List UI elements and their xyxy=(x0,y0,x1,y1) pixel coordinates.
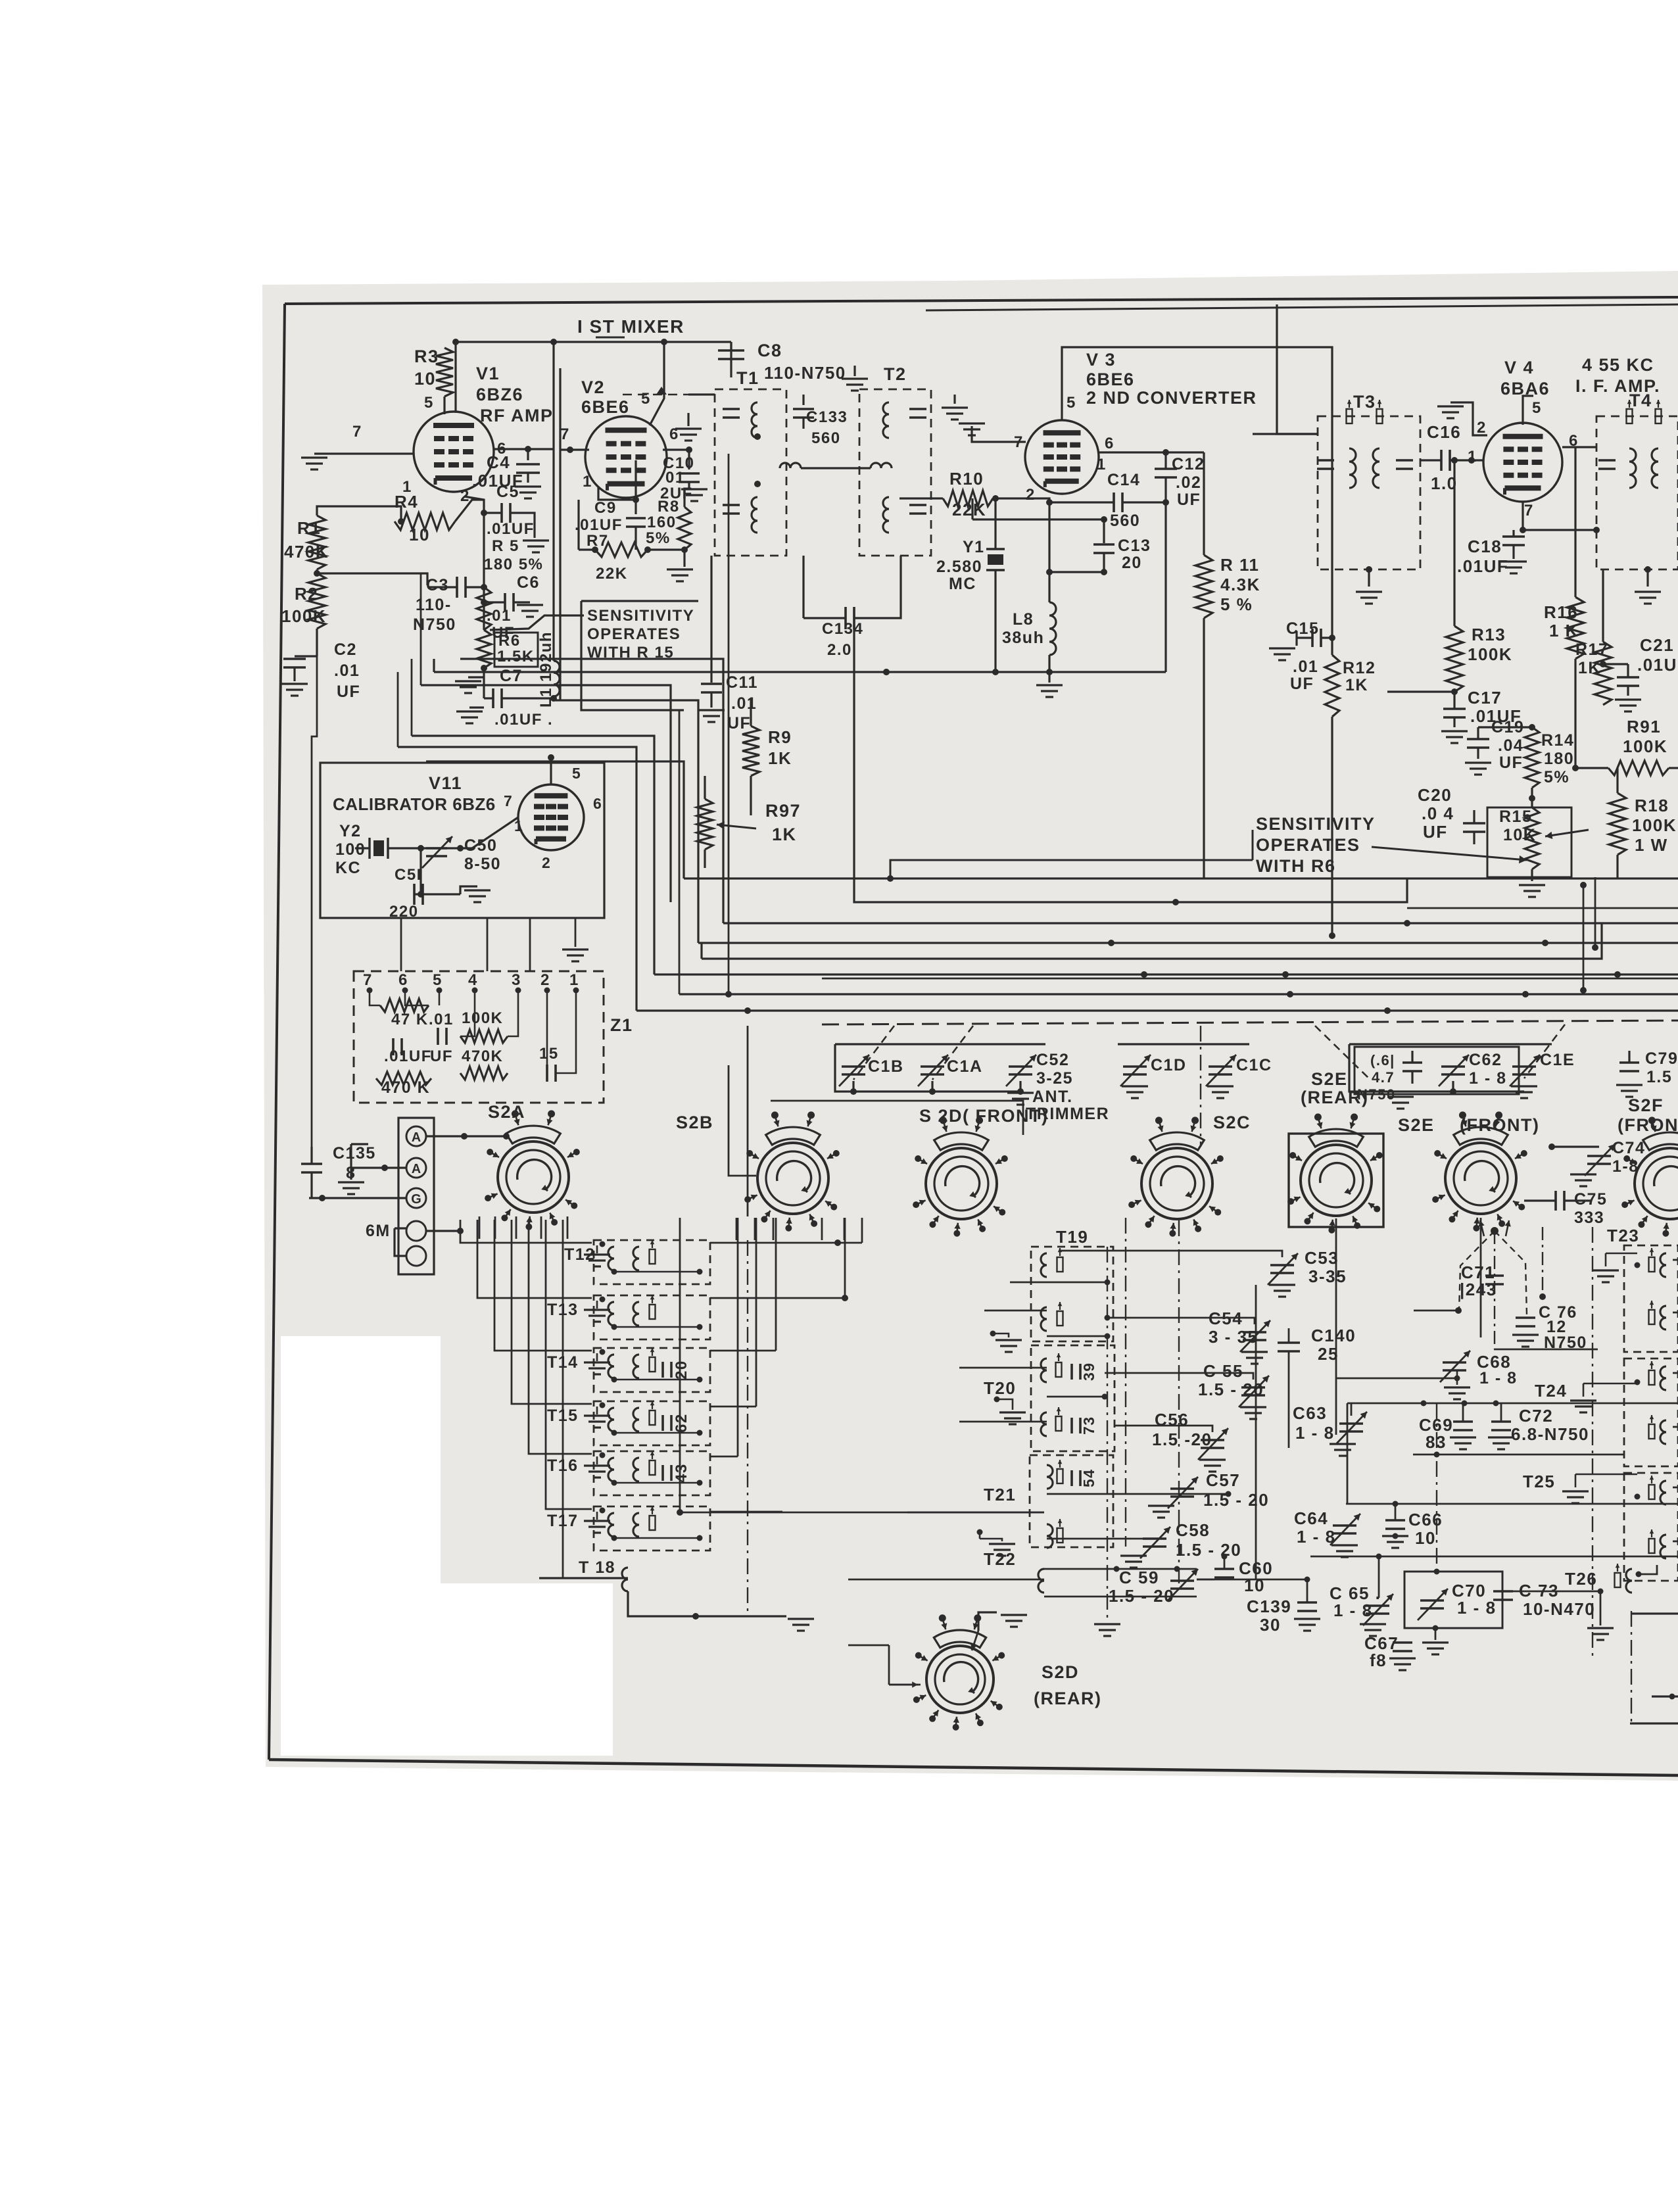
Z1 resistor 47K xyxy=(380,999,429,1012)
bus junction dots xyxy=(883,669,890,675)
svg-text:R10: R10 xyxy=(949,469,984,489)
svg-text:C4: C4 xyxy=(487,452,510,472)
capacitor C76 12 N750 xyxy=(1516,1316,1535,1319)
long vertical pair V1-V2 xyxy=(552,342,554,661)
svg-text:A: A xyxy=(412,1130,421,1145)
svg-text:T26: T26 xyxy=(1565,1569,1597,1589)
staircase left risers xyxy=(411,659,413,736)
slant dashed links C71 xyxy=(1491,1227,1498,1235)
svg-text:.01UF: .01UF xyxy=(1637,655,1678,675)
svg-text:.01: .01 xyxy=(429,1011,454,1028)
V4 top ground wire xyxy=(1450,402,1487,435)
svg-text:5: 5 xyxy=(433,971,443,989)
ground left of terminals xyxy=(351,1166,368,1168)
capacitor C58 1.5-20 xyxy=(1143,1537,1166,1540)
border frame xyxy=(285,297,1678,304)
ground right of T18 xyxy=(788,1618,814,1620)
capacitor C65 1-8 xyxy=(1366,1604,1389,1607)
capacitor C60 10 xyxy=(1214,1568,1234,1570)
svg-text:2: 2 xyxy=(542,854,551,871)
riser from C10 area xyxy=(728,454,730,994)
svg-text:1K: 1K xyxy=(772,825,797,844)
svg-text:T4: T4 xyxy=(1629,391,1652,410)
svg-text:2: 2 xyxy=(1477,419,1487,437)
svg-text:R13: R13 xyxy=(1472,625,1506,644)
svg-text:10: 10 xyxy=(1244,1575,1265,1595)
svg-text:3 - 35: 3 - 35 xyxy=(1209,1327,1258,1347)
svg-text:6.8-N750: 6.8-N750 xyxy=(1511,1424,1589,1444)
svg-text:5 %: 5 % xyxy=(1220,594,1253,614)
wires below calibrator xyxy=(400,918,402,971)
T2 coils xyxy=(883,402,889,438)
T3 coils xyxy=(1349,448,1356,488)
white cutout lower-left B xyxy=(281,1583,613,1756)
box around .61 caps xyxy=(1354,1047,1519,1094)
svg-text:100K: 100K xyxy=(462,1009,503,1027)
bus y1458 xyxy=(702,923,1602,959)
T26 feed row xyxy=(1310,1556,1678,1558)
svg-text:T24: T24 xyxy=(1535,1381,1567,1401)
svg-text:T3: T3 xyxy=(1353,392,1376,412)
paper background xyxy=(262,271,1678,1781)
svg-text:S2B: S2B xyxy=(676,1113,713,1132)
T21 wires xyxy=(1047,1493,1228,1495)
svg-text:T 18: T 18 xyxy=(579,1558,615,1577)
capacitor C54 3-35 xyxy=(1243,1331,1266,1334)
capacitor C72 6.8-N750 xyxy=(1491,1420,1511,1423)
capacitor C68 1-8 xyxy=(1443,1361,1466,1364)
svg-text:T2: T2 xyxy=(884,364,907,384)
line under C76 xyxy=(1494,1349,1598,1351)
svg-text:C3: C3 xyxy=(426,576,449,594)
svg-text:WITH R6: WITH R6 xyxy=(1256,856,1336,876)
svg-text:C2: C2 xyxy=(334,640,357,659)
svg-text:22K: 22K xyxy=(596,565,628,583)
ground above T2 xyxy=(853,366,855,376)
terminal wires xyxy=(426,1135,506,1137)
svg-text:SENSITIVITY: SENSITIVITY xyxy=(1256,814,1376,834)
svg-text:CALIBRATOR 6BZ6: CALIBRATOR 6BZ6 xyxy=(333,794,496,814)
T25 feed row xyxy=(1346,1503,1678,1505)
svg-text:C135: C135 xyxy=(333,1144,376,1163)
bus y1404 xyxy=(723,922,1678,924)
cathode chain node wire xyxy=(464,496,484,630)
S2B feeds left xyxy=(729,1065,756,1176)
svg-text:C56: C56 xyxy=(1155,1410,1189,1430)
svg-text:10-N470: 10-N470 xyxy=(1523,1599,1595,1619)
svg-text:R12: R12 xyxy=(1343,659,1376,677)
svg-text:.01: .01 xyxy=(487,607,512,625)
svg-text:73: 73 xyxy=(1080,1416,1097,1435)
svg-text:C5I: C5I xyxy=(395,866,422,884)
T21 ground xyxy=(989,1543,1015,1545)
staircase wire E xyxy=(412,736,654,974)
cap C79 1.5 xyxy=(1619,1061,1639,1064)
svg-text:V1: V1 xyxy=(476,364,500,383)
tube V4 xyxy=(1483,423,1562,502)
svg-text:2 ND CONVERTER: 2 ND CONVERTER xyxy=(1086,388,1257,408)
vertical riser x1910 xyxy=(1255,1285,1257,1579)
right bus verticals xyxy=(1583,885,1585,990)
svg-text:C7: C7 xyxy=(500,667,523,685)
svg-text:R14: R14 xyxy=(1541,731,1574,750)
T4 ground xyxy=(1646,569,1648,587)
svg-text:V 4: V 4 xyxy=(1504,358,1534,377)
svg-text:C57: C57 xyxy=(1206,1470,1240,1490)
capacitor C59 1.5-20 xyxy=(1170,1579,1194,1582)
svg-text:C12: C12 xyxy=(1172,455,1205,473)
bus y1434 xyxy=(698,942,1678,944)
svg-text:C79: C79 xyxy=(1645,1049,1678,1068)
svg-text:ANT.: ANT. xyxy=(1032,1088,1073,1106)
svg-text:.01UF: .01UF xyxy=(575,516,623,534)
svg-text:39: 39 xyxy=(1080,1362,1097,1381)
bus y1336 xyxy=(684,877,1678,879)
svg-text:C134: C134 xyxy=(822,620,863,638)
svg-text:RF AMP: RF AMP xyxy=(480,406,554,425)
svg-text:T25: T25 xyxy=(1523,1472,1555,1491)
capacitor C66 10 xyxy=(1385,1519,1405,1522)
variable capacitor C1A xyxy=(921,1065,944,1068)
T19 winding wires xyxy=(1059,1250,1197,1252)
dashed slant links xyxy=(853,1026,894,1080)
svg-text:I ST MIXER: I ST MIXER xyxy=(577,316,684,337)
svg-text:N750: N750 xyxy=(413,615,456,634)
svg-text:6BZ6: 6BZ6 xyxy=(476,385,523,404)
staircase wire G xyxy=(426,761,684,878)
T3 input wire xyxy=(1253,433,1318,435)
svg-text:R97: R97 xyxy=(765,801,801,821)
bus doubling segments xyxy=(1407,907,1678,909)
svg-text:5: 5 xyxy=(424,394,434,412)
cap C1D xyxy=(1123,1065,1147,1068)
svg-text:R9: R9 xyxy=(768,727,792,747)
ground under T-center xyxy=(1094,1623,1120,1625)
svg-text:UF: UF xyxy=(1177,491,1201,509)
svg-text:C1D: C1D xyxy=(1151,1056,1187,1074)
capacitor C53 3-35 xyxy=(1270,1264,1294,1266)
svg-text:1 - 8: 1 - 8 xyxy=(1469,1069,1507,1088)
switch S2A contact drops xyxy=(479,1216,481,1239)
ground under L8 xyxy=(1036,684,1063,686)
Z1 dashed box xyxy=(354,971,604,1103)
cap C74 1-8 xyxy=(1587,1155,1611,1157)
riser x1033 xyxy=(679,710,681,994)
svg-text:1.5 - 20: 1.5 - 20 xyxy=(1198,1380,1264,1399)
capacitor C55 1.5-20 xyxy=(1241,1386,1265,1389)
svg-text:2: 2 xyxy=(540,971,550,989)
svg-text:2.0: 2.0 xyxy=(827,641,852,659)
svg-text:333: 333 xyxy=(1574,1209,1604,1227)
svg-text:.01UF: .01UF xyxy=(1457,556,1508,576)
svg-text:|243: |243 xyxy=(1460,1280,1497,1299)
T19 ground xyxy=(995,1339,1022,1341)
svg-text:1.5 - 20: 1.5 - 20 xyxy=(1203,1490,1269,1510)
svg-text:C66: C66 xyxy=(1408,1510,1443,1529)
svg-text:3: 3 xyxy=(512,971,521,989)
svg-text:1 - 8: 1 - 8 xyxy=(1479,1369,1518,1387)
svg-text:C 59: C 59 xyxy=(1119,1568,1159,1587)
svg-text:R 5: R 5 xyxy=(492,537,519,555)
variable capacitor C1B xyxy=(842,1065,865,1068)
staircase wire D xyxy=(596,700,698,943)
T4 coils xyxy=(1629,448,1636,488)
svg-text:C9: C9 xyxy=(594,499,617,517)
svg-text:S2F: S2F xyxy=(1628,1095,1664,1115)
svg-text:C139: C139 xyxy=(1247,1597,1291,1616)
svg-text:C11: C11 xyxy=(726,673,758,692)
S2B hood wire xyxy=(771,1101,1023,1135)
svg-text:C1B: C1B xyxy=(868,1057,904,1076)
svg-text:C13: C13 xyxy=(1118,537,1151,555)
V2 pin5 wire xyxy=(650,342,664,425)
transformer T14 xyxy=(594,1348,710,1392)
svg-text:5: 5 xyxy=(1067,394,1076,412)
svg-text:1: 1 xyxy=(583,473,592,491)
svg-text:Z1: Z1 xyxy=(610,1015,633,1035)
bus y1512 xyxy=(679,993,1678,995)
svg-text:UF: UF xyxy=(1290,675,1314,693)
svg-text:5%: 5% xyxy=(646,529,671,547)
svg-text:C52: C52 xyxy=(1036,1051,1069,1069)
svg-text:1.5 l: 1.5 l xyxy=(1646,1068,1678,1086)
svg-text:7: 7 xyxy=(560,425,570,443)
svg-text:5%: 5% xyxy=(1544,768,1570,786)
switch S2D REAR xyxy=(926,1646,994,1713)
svg-text:R8: R8 xyxy=(658,498,680,516)
net box T24 row xyxy=(1347,1403,1678,1405)
svg-text:20: 20 xyxy=(673,1360,690,1380)
svg-text:V2: V2 xyxy=(581,377,605,397)
svg-text:1 - 8: 1 - 8 xyxy=(1297,1527,1336,1547)
svg-text:1.5 -20: 1.5 -20 xyxy=(1152,1430,1212,1449)
svg-text:S2D: S2D xyxy=(1042,1662,1079,1682)
svg-text:6BE6: 6BE6 xyxy=(581,397,630,417)
svg-text:T22: T22 xyxy=(984,1549,1016,1569)
svg-text:15: 15 xyxy=(539,1045,559,1063)
svg-text:6BE6: 6BE6 xyxy=(1086,370,1135,389)
svg-text:C75: C75 xyxy=(1574,1190,1607,1209)
svg-text:30: 30 xyxy=(1260,1615,1281,1635)
T3 ground stem xyxy=(1368,569,1370,587)
svg-text:2.580: 2.580 xyxy=(936,558,982,576)
svg-text:R4: R4 xyxy=(395,492,418,512)
svg-text:4.3K: 4.3K xyxy=(1220,575,1260,594)
vertical riser x1960 xyxy=(1288,1366,1290,1448)
pointer line to R15 xyxy=(1372,847,1527,860)
capacitor C73 10-N470 xyxy=(1493,1590,1513,1593)
ground left of V1 xyxy=(314,452,414,454)
svg-text:C8: C8 xyxy=(757,341,782,360)
box around C70 xyxy=(1404,1572,1502,1628)
svg-text:C21: C21 xyxy=(1640,635,1674,655)
svg-text:R6: R6 xyxy=(498,632,521,650)
svg-text:L8: L8 xyxy=(1013,610,1034,629)
svg-text:1 W: 1 W xyxy=(1635,835,1668,855)
V3 plate wire to x2026 xyxy=(1062,347,1332,638)
svg-text:UF: UF xyxy=(1423,822,1448,842)
svg-text:560: 560 xyxy=(811,429,841,447)
svg-text:.01: .01 xyxy=(731,694,757,713)
tube V1 xyxy=(414,412,494,492)
svg-text:C16: C16 xyxy=(1427,422,1461,442)
svg-text:47 K: 47 K xyxy=(391,1011,429,1028)
bus y1372 xyxy=(854,626,1407,902)
svg-text:4 55 KC: 4 55 KC xyxy=(1582,355,1654,375)
V3 pin7 ground wire xyxy=(972,426,1026,442)
svg-text:6M: 6M xyxy=(366,1222,391,1240)
ground under T2 xyxy=(953,395,955,404)
left bank riser wires xyxy=(460,1220,592,1243)
transformer T12 xyxy=(594,1240,710,1284)
svg-text:6: 6 xyxy=(593,795,602,812)
calibrator box xyxy=(320,763,604,918)
svg-text:1K: 1K xyxy=(768,748,792,768)
S2D rear feed xyxy=(978,1612,997,1631)
tube V11 xyxy=(518,784,584,850)
svg-text:7: 7 xyxy=(363,971,373,989)
svg-text:.01UF: .01UF xyxy=(487,520,535,538)
wire R2 tap to C3 xyxy=(317,573,427,585)
svg-text:.0 4: .0 4 xyxy=(1422,804,1454,823)
white cutout lower-left A xyxy=(281,1336,441,1586)
svg-text:A: A xyxy=(412,1162,421,1176)
wire box around sensitivity xyxy=(581,600,698,602)
svg-text:1: 1 xyxy=(1468,448,1477,466)
svg-text:UF: UF xyxy=(430,1047,453,1065)
junction dots right xyxy=(1222,1554,1228,1560)
svg-text:MC: MC xyxy=(949,575,976,593)
svg-text:.02: .02 xyxy=(1176,473,1201,492)
svg-text:S2E: S2E xyxy=(1398,1115,1435,1135)
svg-text:180 5%: 180 5% xyxy=(484,556,543,573)
Z1 interior wires xyxy=(370,990,380,1005)
svg-text:2: 2 xyxy=(1026,486,1036,504)
dash-dot riser to C70 xyxy=(1436,1403,1437,1572)
svg-text:560: 560 xyxy=(1110,512,1140,530)
right edge coil stubs xyxy=(1673,1259,1678,1261)
cap C75 333 xyxy=(1554,1191,1557,1211)
svg-text:.04: .04 xyxy=(1498,736,1523,755)
S2E drops xyxy=(1335,1218,1337,1435)
V2 pin7 wire xyxy=(560,448,589,450)
capacitor C56 1.5-20 xyxy=(1201,1439,1224,1441)
svg-text:T19: T19 xyxy=(1056,1227,1088,1247)
svg-text:Y1: Y1 xyxy=(963,538,985,556)
svg-text:4: 4 xyxy=(468,971,478,989)
svg-text:UF: UF xyxy=(337,683,360,701)
left column wire R2 to C135 xyxy=(312,656,317,1147)
T1 coils xyxy=(752,402,757,438)
svg-text:KC: KC xyxy=(335,859,361,877)
transformer T13 xyxy=(594,1295,710,1339)
tube V2 xyxy=(585,416,667,498)
svg-text:7: 7 xyxy=(504,792,513,809)
svg-text:C140: C140 xyxy=(1311,1326,1356,1345)
svg-text:1 - 8: 1 - 8 xyxy=(1295,1423,1335,1443)
svg-text:38uh: 38uh xyxy=(1002,629,1044,647)
svg-text:7: 7 xyxy=(1524,502,1534,519)
svg-text:3-25: 3-25 xyxy=(1036,1069,1073,1088)
svg-text:C62: C62 xyxy=(1469,1051,1502,1069)
svg-text:C53: C53 xyxy=(1305,1248,1339,1268)
svg-text:C58: C58 xyxy=(1176,1520,1210,1540)
svg-text:UF: UF xyxy=(727,714,751,733)
staircase wire F xyxy=(398,747,636,1011)
V4 pin6 wire to T4 xyxy=(1562,446,1596,448)
T3 feed from top rail xyxy=(1277,304,1318,434)
svg-text:T1: T1 xyxy=(736,368,759,388)
variable capacitor C62 1-8 xyxy=(1441,1065,1465,1068)
cap C1E xyxy=(1512,1065,1536,1068)
svg-text:1: 1 xyxy=(1097,456,1107,473)
ground in calibrator xyxy=(464,889,491,891)
svg-text:20: 20 xyxy=(1122,554,1142,572)
feed horizontals to T banks xyxy=(710,1242,862,1244)
capacitor C67 68 xyxy=(1393,1641,1412,1644)
svg-text:C50: C50 xyxy=(464,836,497,855)
capacitor C140 25 xyxy=(1278,1341,1300,1344)
right bank bottom box xyxy=(1632,1612,1678,1614)
wire V1 plate top line xyxy=(456,342,731,412)
svg-text:C63: C63 xyxy=(1293,1403,1327,1423)
svg-text:.01: .01 xyxy=(1293,658,1318,676)
T1-T2 coupling link xyxy=(780,463,801,468)
svg-text:470K: 470K xyxy=(462,1047,503,1065)
svg-text:5: 5 xyxy=(1532,399,1542,417)
svg-text:100: 100 xyxy=(335,840,366,859)
svg-text:110-N750: 110-N750 xyxy=(764,363,846,383)
svg-text:8-50: 8-50 xyxy=(464,855,501,873)
capacitor C70 1-8 xyxy=(1420,1599,1444,1602)
svg-text:TRIMMER: TRIMMER xyxy=(1026,1105,1109,1123)
svg-text:C6: C6 xyxy=(517,573,540,592)
svg-text:1.5K: 1.5K xyxy=(497,648,535,665)
svg-text:T20: T20 xyxy=(984,1378,1016,1398)
wires T1/T2 tops xyxy=(688,393,715,395)
vertical dash-dot columns xyxy=(747,1240,748,1616)
svg-text:C1C: C1C xyxy=(1236,1056,1272,1074)
svg-text:C17: C17 xyxy=(1468,688,1502,708)
svg-text:C15: C15 xyxy=(1286,619,1319,638)
svg-text:C64: C64 xyxy=(1294,1508,1328,1528)
svg-text:C74: C74 xyxy=(1612,1139,1645,1157)
svg-text:1.5 - 20: 1.5 - 20 xyxy=(1176,1540,1241,1560)
svg-text:1.5 - 20: 1.5 - 20 xyxy=(1109,1586,1174,1606)
svg-text:C72: C72 xyxy=(1519,1406,1553,1426)
mid horizontals near sensitivity right xyxy=(890,860,1253,878)
svg-text:10: 10 xyxy=(414,369,436,389)
svg-text:R18: R18 xyxy=(1635,796,1669,815)
svg-text:S2E: S2E xyxy=(1311,1069,1348,1089)
bus y1482 xyxy=(654,973,1678,975)
svg-text:f8: f8 xyxy=(1370,1650,1387,1670)
svg-text:7: 7 xyxy=(352,423,362,441)
svg-text:C20: C20 xyxy=(1418,785,1452,805)
ground under R15 xyxy=(1531,869,1533,881)
V2 pin6 wire xyxy=(663,448,689,450)
capacitor C57 1.5-20 xyxy=(1170,1487,1194,1490)
svg-text:S2C: S2C xyxy=(1213,1113,1251,1132)
T23 lower row feed xyxy=(1542,1227,1543,1297)
transformer T15 xyxy=(594,1401,710,1445)
svg-text:C18: C18 xyxy=(1468,537,1502,556)
svg-text:1 - 8: 1 - 8 xyxy=(1457,1598,1497,1618)
T20 ground xyxy=(999,1411,1026,1413)
svg-text:C5: C5 xyxy=(496,483,519,501)
svg-text:43: 43 xyxy=(673,1463,690,1483)
svg-text:3-35: 3-35 xyxy=(1308,1266,1347,1286)
